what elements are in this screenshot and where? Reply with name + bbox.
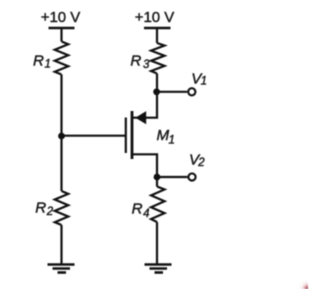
wire R1 to R2 (through gate node) <box>60 75 62 192</box>
gate bar <box>125 118 127 154</box>
node drain junction dot <box>153 88 160 95</box>
label V1 <box>191 70 207 87</box>
supply bar VDD right <box>144 27 171 29</box>
ground (left) <box>48 265 75 273</box>
resistor R2 <box>55 191 69 225</box>
wire supply-left to R1 <box>60 28 62 42</box>
svg-text:1: 1 <box>169 134 175 146</box>
label R2 <box>35 200 54 219</box>
svg-text:R: R <box>33 53 44 70</box>
label M1 <box>157 127 175 146</box>
wire source node to R4 <box>156 177 158 187</box>
node source junction dot <box>154 174 161 181</box>
wire supply-right to R3 <box>156 28 158 43</box>
svg-text:1: 1 <box>45 59 51 71</box>
source lead (bottom) <box>132 154 157 177</box>
wire R4 to ground <box>156 222 158 265</box>
svg-text:1: 1 <box>201 75 207 87</box>
svg-text:R: R <box>132 201 143 218</box>
arrow on drain lead <box>135 111 146 124</box>
wire R3 to drain node <box>156 74 158 92</box>
supply bar VDD left <box>49 27 75 29</box>
channel bar <box>131 111 134 159</box>
terminal V1 circle <box>188 88 195 95</box>
label R4 <box>132 201 150 221</box>
svg-text:+10 V: +10 V <box>41 9 81 26</box>
label V2 <box>189 152 205 169</box>
ground (right) <box>145 265 172 273</box>
svg-text:3: 3 <box>143 59 150 71</box>
label R1 <box>33 53 51 71</box>
svg-text:+10 V: +10 V <box>135 9 175 26</box>
svg-text:R: R <box>35 200 46 217</box>
svg-text:2: 2 <box>46 206 54 218</box>
corner artifact (red smudge bottom-right) <box>297 278 308 289</box>
resistor R3 <box>151 43 165 74</box>
terminal V2 circle <box>188 173 195 180</box>
svg-text:4: 4 <box>143 208 149 220</box>
drain lead (top) <box>132 92 157 118</box>
resistor R1 <box>55 42 69 75</box>
label R3 <box>130 53 150 72</box>
transistor M1 <box>126 92 157 177</box>
wire source node to V2 terminal <box>157 176 187 178</box>
wire gate lead to M1 <box>62 135 126 137</box>
node gate junction dot <box>58 133 65 140</box>
wire drain node to V1 terminal <box>157 91 188 93</box>
svg-text:2: 2 <box>197 157 205 169</box>
svg-text:R: R <box>130 53 141 70</box>
resistor R4 <box>151 187 165 223</box>
wire R2 to ground <box>60 225 62 265</box>
